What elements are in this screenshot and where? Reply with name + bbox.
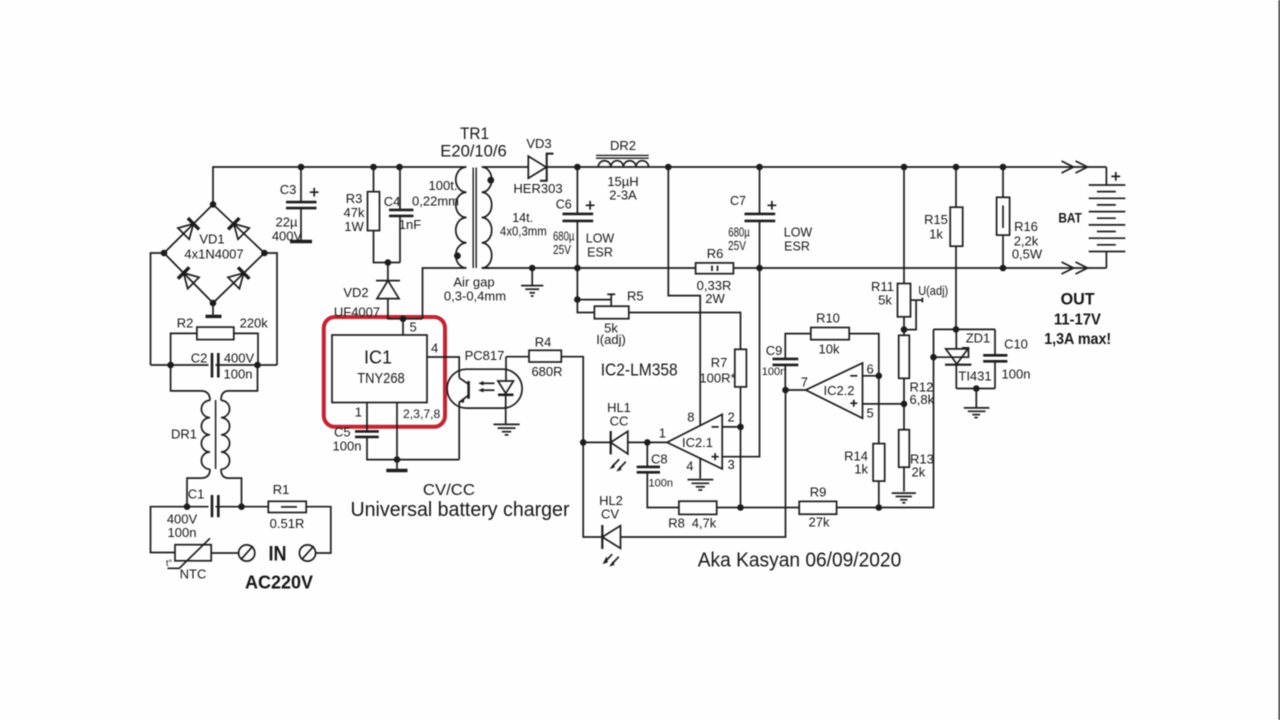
svg-text:ESR: ESR [784,239,810,253]
svg-text:100n: 100n [224,367,253,382]
svg-text:2: 2 [728,410,735,425]
svg-text:Universal battery charger: Universal battery charger [351,499,570,521]
svg-text:U(adj): U(adj) [918,283,948,298]
svg-text:1: 1 [355,405,362,420]
svg-text:DR2: DR2 [610,138,636,153]
svg-text:100n: 100n [1002,366,1031,381]
svg-text:R9: R9 [810,484,827,499]
svg-text:I(adj): I(adj) [596,332,626,347]
svg-text:NTC: NTC [180,567,207,582]
svg-text:OUT: OUT [1061,290,1096,309]
svg-text:LOW: LOW [784,226,813,240]
svg-text:680R: 680R [531,364,562,379]
svg-text:CC: CC [610,414,629,429]
svg-text:680µ: 680µ [728,225,750,239]
svg-text:TR1: TR1 [460,124,489,143]
svg-text:1k: 1k [854,461,868,476]
svg-text:1nF: 1nF [399,217,421,232]
svg-text:C1: C1 [188,487,205,502]
svg-text:220k: 220k [240,316,269,331]
svg-text:6,8k: 6,8k [910,392,935,407]
svg-text:25V: 25V [728,239,747,253]
svg-text:1k: 1k [929,226,943,241]
svg-text:4: 4 [686,458,693,473]
svg-text:5k: 5k [878,293,892,308]
svg-text:IC1: IC1 [364,348,392,368]
svg-text:0,5W: 0,5W [1012,246,1043,261]
svg-text:1: 1 [659,426,666,441]
svg-text:VD3: VD3 [526,136,551,151]
svg-text:HER303: HER303 [513,181,562,196]
svg-text:R15: R15 [924,212,948,227]
svg-text:C7: C7 [730,194,746,208]
svg-text:R5: R5 [627,288,644,303]
svg-text:1,3A max!: 1,3A max! [1044,331,1111,348]
svg-text:100n: 100n [168,525,197,540]
svg-text:0,3-0,4mm: 0,3-0,4mm [444,288,506,303]
svg-text:100n: 100n [649,478,673,490]
svg-text:4x0,3mm: 4x0,3mm [500,224,547,238]
svg-text:CV: CV [601,507,619,522]
svg-text:R16: R16 [1014,219,1038,234]
svg-text:DR1: DR1 [171,427,197,442]
svg-text:14t.: 14t. [512,211,533,225]
svg-text:C10: C10 [1004,336,1028,351]
svg-text:100t.: 100t. [429,178,458,193]
svg-text:C4: C4 [384,194,401,209]
svg-text:ZD1: ZD1 [966,330,991,345]
svg-text:25V: 25V [553,243,572,257]
svg-text:AC220V: AC220V [245,572,313,592]
svg-text:C5: C5 [334,425,351,440]
svg-text:TNY268: TNY268 [357,370,405,387]
svg-text:TI431: TI431 [958,368,991,383]
svg-text:C6: C6 [556,198,572,212]
svg-text:R8: R8 [668,515,685,530]
svg-text:22µ: 22µ [276,215,298,230]
svg-text:UF4007: UF4007 [334,304,380,319]
svg-text:Aka Kasyan 06/09/2020: Aka Kasyan 06/09/2020 [698,550,902,572]
svg-text:VD1: VD1 [199,232,224,247]
svg-text:100R*: 100R* [699,370,735,385]
svg-text:8: 8 [687,409,694,424]
svg-text:10k: 10k [819,341,840,356]
svg-text:4: 4 [431,341,438,356]
svg-text:680µ: 680µ [553,229,575,243]
svg-text:400V: 400V [272,228,303,243]
svg-text:R2: R2 [177,316,194,331]
svg-text:2W: 2W [705,291,725,306]
svg-text:C8: C8 [651,451,668,466]
svg-text:CV/CC: CV/CC [423,482,475,499]
svg-text:IN: IN [269,543,287,566]
svg-text:7: 7 [801,374,808,389]
svg-text:C3: C3 [280,182,297,197]
svg-text:100n: 100n [333,438,362,453]
svg-text:1W: 1W [344,219,364,234]
svg-text:6: 6 [867,361,874,376]
svg-text:E20/10/6: E20/10/6 [440,141,507,160]
svg-text:2k: 2k [912,464,926,479]
svg-text:2,3,7,8: 2,3,7,8 [403,407,440,421]
svg-text:IC2-LM358: IC2-LM358 [601,360,678,380]
svg-text:R10: R10 [816,310,840,325]
svg-text:5: 5 [867,405,874,420]
svg-text:LOW: LOW [586,232,615,246]
svg-text:0.51R: 0.51R [270,516,305,531]
svg-text:HL2: HL2 [599,493,623,508]
svg-text:2-3A: 2-3A [609,188,637,203]
svg-text:t°: t° [166,558,173,568]
svg-text:11-17V: 11-17V [1054,311,1101,328]
svg-text:400V: 400V [224,350,255,365]
svg-text:C9: C9 [766,343,783,358]
svg-text:5: 5 [410,320,417,335]
svg-text:PC817: PC817 [465,348,505,363]
svg-text:27k: 27k [809,514,830,529]
svg-text:IC2.2: IC2.2 [823,383,854,398]
svg-text:VD2: VD2 [343,285,368,300]
svg-text:BAT: BAT [1058,210,1082,226]
svg-text:100n: 100n [762,366,786,378]
svg-text:0,22mm: 0,22mm [412,193,459,208]
svg-text:R4: R4 [535,334,552,349]
svg-text:R7: R7 [711,355,728,370]
svg-text:47k: 47k [344,205,365,220]
svg-text:R1: R1 [273,482,290,497]
svg-text:R3: R3 [346,191,363,206]
svg-text:4x1N4007: 4x1N4007 [184,247,243,262]
svg-text:3: 3 [728,457,735,472]
svg-text:R6: R6 [707,246,724,261]
svg-text:C2: C2 [191,351,208,366]
svg-text:IC2.1: IC2.1 [682,435,713,450]
svg-text:ESR: ESR [587,246,613,260]
svg-text:Air gap: Air gap [453,274,494,289]
svg-text:HL1: HL1 [607,400,631,415]
svg-text:4,7k: 4,7k [692,515,717,530]
